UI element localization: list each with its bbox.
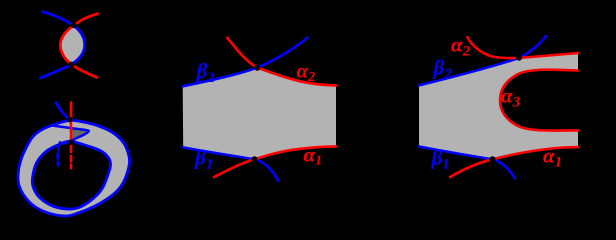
blue dashed hidden squiggle [56,146,59,166]
blue curve beta1 (bottom boundary + tail) [183,147,278,180]
red curve alpha2 (hook tail + top boundary) [467,37,578,58]
outer torus silhouette (gray fill) [18,120,130,216]
dark bigon between red line and blue loop [71,128,89,142]
red curve alpha1 (tail + bottom boundary) [450,147,578,177]
red curve alpha1 (tail + bottom boundary) [214,146,336,177]
inner hole [32,141,110,209]
vertex dot bottom [252,156,258,162]
vertex dot top [516,55,522,61]
blue curve (top-left tail, right side of lens, bottom-left tail) [40,12,84,78]
dot2 (red x loop) [68,140,74,146]
blue loop (finger) [50,125,89,143]
red curve alpha3 (the C notch) [500,70,578,131]
blue curve beta2 (top boundary + tail) [183,38,308,87]
red meridian dashed part [70,156,73,168]
red meridian solid part [70,103,73,153]
red curve alpha2 (tail + top boundary) [227,38,336,86]
dot1 (red x outer arc) [67,117,73,123]
vertex dot top [71,22,77,28]
blue steep tail into dot1 [56,103,70,120]
vertex dot bottom [68,62,74,68]
gray quad fill [183,68,336,160]
red curve (top-right tail, left side of lens, bottom-right tail) [60,14,97,78]
gray fork fill [419,53,578,159]
blue curve beta2 (top boundary + tail) [419,36,546,85]
bigon gray fill [60,26,84,65]
vertex dot top [254,65,260,71]
vertex dot bottom [490,156,496,162]
blue curve beta1 (bottom boundary + tail) [419,147,515,179]
